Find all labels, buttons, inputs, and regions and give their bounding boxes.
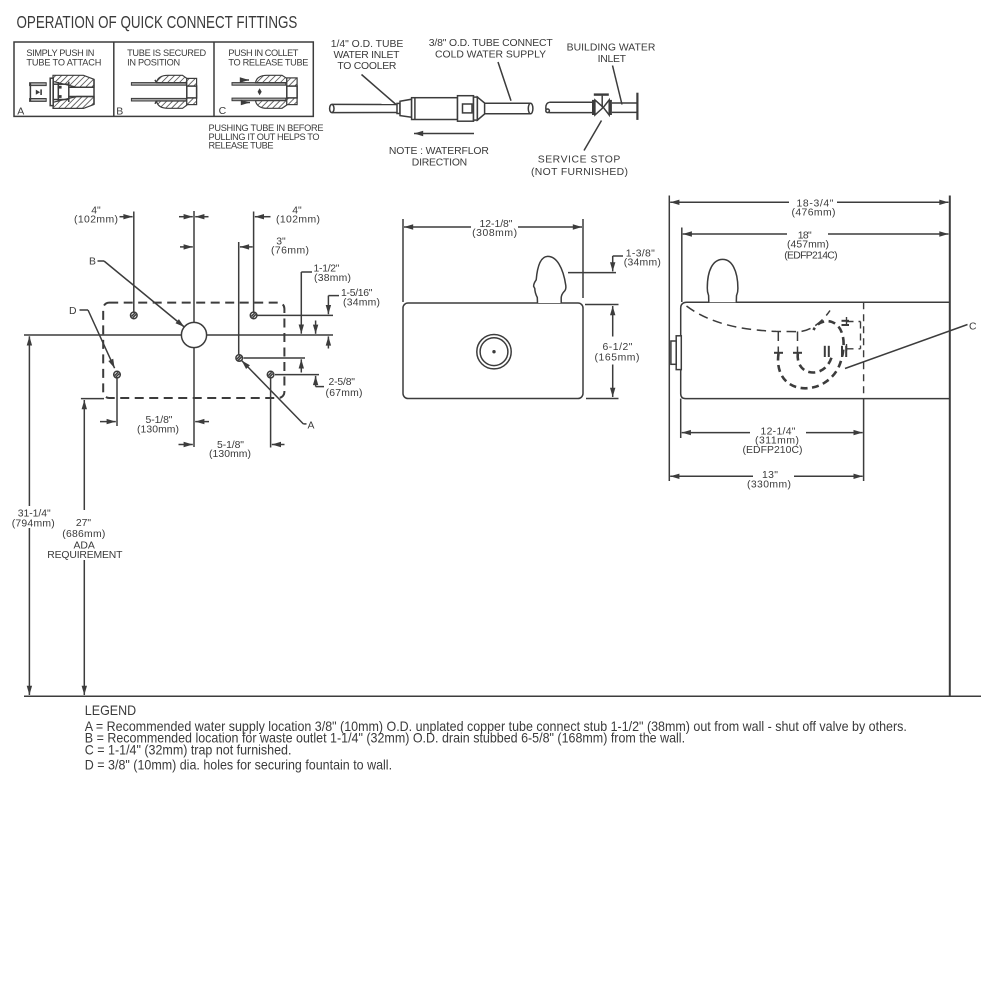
note below box C [209,123,324,151]
svg-text:(34mm): (34mm) [624,258,661,269]
svg-text:SIMPLY PUSH IN: SIMPLY PUSH IN [26,48,94,58]
dim 2-5/8" [316,321,363,400]
svg-text:B: B [116,106,123,118]
dim 13" [670,470,863,491]
label 1/4 OD tube water inlet [331,39,404,72]
svg-text:RELEASE TUBE: RELEASE TUBE [209,141,274,151]
front push button [477,335,511,369]
holes top reference line [258,314,334,316]
svg-text:C = 1-1/4" (32mm) trap not fur: C = 1-1/4" (32mm) trap not furnished. [85,742,292,758]
dim 6-1/2" [585,305,640,399]
svg-text:COLD WATER SUPPLY: COLD WATER SUPPLY [435,49,546,60]
dim 31-1/4" [12,336,55,695]
svg-text:A: A [17,106,24,118]
svg-text:D = 3/8" (10mm) dia. holes for: D = 3/8" (10mm) dia. holes for securing … [85,757,392,773]
svg-text:(130mm): (130mm) [137,425,179,436]
svg-text:(165mm): (165mm) [595,353,640,364]
svg-text:TO COOLER: TO COOLER [337,61,396,72]
instruction boxes frame [14,42,313,116]
svg-text:(308mm): (308mm) [472,228,517,239]
svg-text:(38mm): (38mm) [314,273,351,284]
label C leader [845,322,977,369]
dim 4" right [179,206,320,226]
svg-text:(102mm): (102mm) [276,215,320,226]
svg-text:OPERATION OF QUICK CONNECT FIT: OPERATION OF QUICK CONNECT FITTINGS [17,13,298,32]
svg-text:27": 27" [76,518,92,529]
label service stop [531,155,628,178]
coupler body [400,96,485,122]
right wall line [949,196,951,697]
floor line [24,695,981,697]
svg-text:BUILDING WATER: BUILDING WATER [567,43,656,54]
label B leader [89,257,184,328]
front view basin body [403,303,583,399]
box C captions [219,48,309,117]
service stop left tube [546,102,592,112]
svg-text:(76mm): (76mm) [271,246,309,257]
svg-text:DIRECTION: DIRECTION [412,158,467,169]
box A fitting drawing [30,75,94,108]
waste outlet circle B [181,322,206,347]
dim 12-1/4" [682,426,863,456]
svg-text:WATER INLET: WATER INLET [334,50,401,61]
svg-text:(686mm): (686mm) [62,529,105,540]
coupler right tube 3/8" [485,103,533,114]
box B fitting drawing [131,75,196,108]
svg-text:REQUIREMENT: REQUIREMENT [47,550,123,561]
mounting hole 4 [267,371,274,378]
label A leader [242,361,315,432]
title [17,13,298,32]
legend [85,702,907,773]
svg-text:B: B [89,257,96,268]
dim 1-1/2" [301,264,351,373]
mounting hole 1 [131,312,138,319]
svg-text:(457mm): (457mm) [787,240,829,251]
side view bubbler [707,259,738,302]
svg-text:A: A [308,421,315,432]
svg-text:1/4" O.D. TUBE: 1/4" O.D. TUBE [331,39,404,50]
extension line left hole [133,212,135,312]
svg-text:C: C [219,105,227,117]
svg-text:3/8" O.D. TUBE CONNECT: 3/8" O.D. TUBE CONNECT [429,38,554,49]
drain standpipe dashed [778,332,797,353]
trap union ticks [825,321,849,357]
dim 1-5/16" [328,288,380,349]
dim 1-3/8" [568,248,661,272]
svg-text:(NOT FURNISHED): (NOT FURNISHED) [531,167,628,178]
side extension lines [668,196,670,482]
dim 5-1/8" second [179,440,285,460]
dim 18" [683,230,949,261]
svg-text:D: D [69,306,77,317]
svg-text:C: C [969,322,977,333]
waterflow direction arrow [414,133,474,135]
wall mounting dashed outline [103,303,284,398]
svg-text:(67mm): (67mm) [326,388,363,399]
extension below D hole [116,378,118,426]
svg-text:NOTE : WATERFLOR: NOTE : WATERFLOR [389,146,489,157]
svg-text:TO RELEASE TUBE: TO RELEASE TUBE [228,58,308,68]
svg-text:(34mm): (34mm) [343,297,380,308]
svg-text:TUBE TO ATTACH: TUBE TO ATTACH [26,58,101,68]
front view bubbler [534,256,566,303]
svg-text:(102mm): (102mm) [74,215,118,226]
label 3/8 OD tube connect [429,38,554,60]
box B captions [116,48,206,118]
service stop right tube [612,103,637,112]
svg-text:2-5/8": 2-5/8" [329,377,356,388]
extension line supply A [238,242,240,354]
side view push button [671,336,681,370]
svg-text:SERVICE STOP: SERVICE STOP [538,155,621,166]
coupler left tube 1/4" [330,103,400,113]
extension below lower right hole [270,378,272,447]
label D leader [69,306,115,368]
label building water inlet [567,43,656,65]
dim 5-1/8" first [100,415,209,436]
dashed vertical 12-1/4 reference [863,302,865,398]
dim 27" ADA [47,399,123,695]
basin profile dashed [687,306,831,332]
service stop valve [592,95,612,115]
building wall stub line [636,93,638,120]
wall stub dashed [847,317,861,353]
svg-text:(330mm): (330mm) [747,480,791,491]
svg-text:(794mm): (794mm) [12,518,55,529]
side view body [681,302,949,398]
svg-text:LEGEND: LEGEND [85,702,137,718]
dim 4" left [74,206,209,226]
lower holes reference line [275,374,319,376]
svg-text:(EDFP214C): (EDFP214C) [784,250,837,261]
note waterflow direction [389,146,489,169]
svg-text:PUSH IN COLLET: PUSH IN COLLET [228,48,298,58]
centerline vertical [193,211,195,322]
svg-text:6-1/2": 6-1/2" [603,342,633,353]
svg-text:IN POSITION: IN POSITION [127,58,180,68]
svg-text:(130mm): (130mm) [209,449,251,460]
P-trap dashed [778,321,844,388]
dim 3" [180,237,309,257]
svg-text:TUBE IS SECURED: TUBE IS SECURED [127,48,206,58]
box A captions [17,48,101,118]
dim 18-3/4" [670,198,948,218]
box C fitting drawing [232,75,297,108]
extension line right hole [253,212,255,312]
svg-text:(EDFP210C): (EDFP210C) [743,445,803,456]
supply A reference line [244,357,306,359]
svg-text:(476mm): (476mm) [792,208,836,219]
rim line [24,334,333,336]
mounting hole 5 [114,371,121,378]
mounting hole 3 [236,355,243,362]
dim 12-1/8" [403,219,583,302]
svg-text:INLET: INLET [598,54,627,65]
mounting hole 2 [250,312,257,319]
